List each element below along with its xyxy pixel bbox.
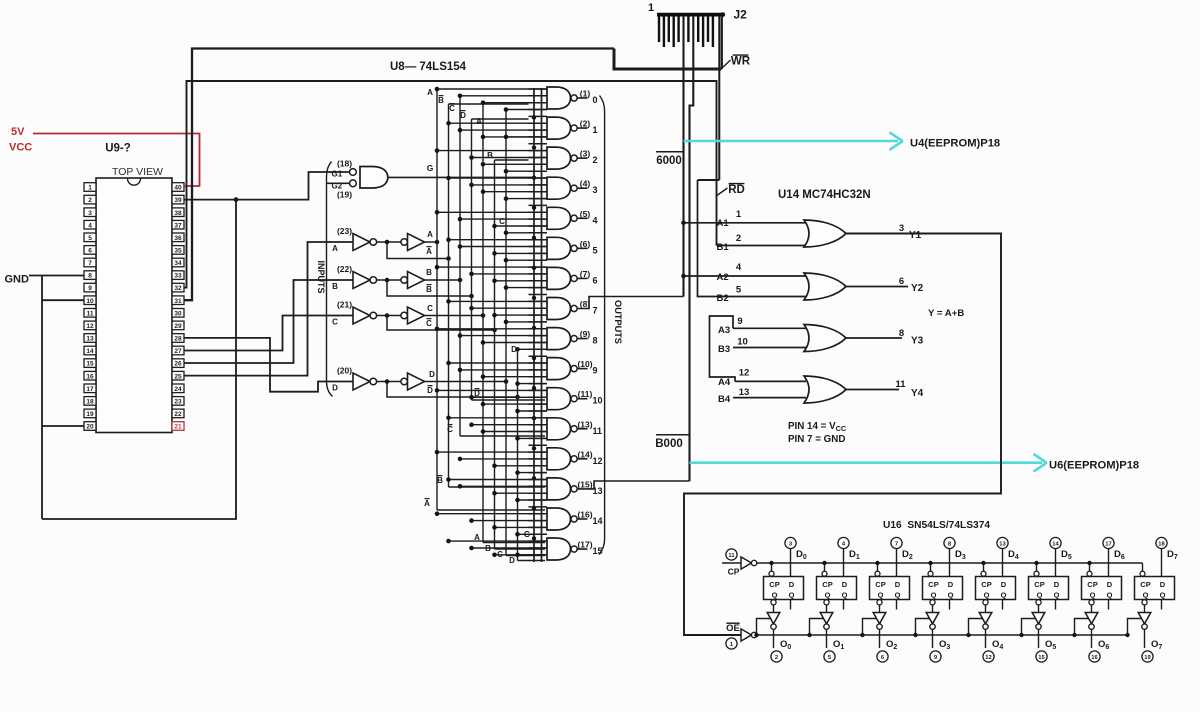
tri-state output buffer bit 1 [824,600,829,605]
svg-text:A3: A3 [718,325,730,336]
input D6 [1103,537,1114,548]
svg-text:8: 8 [88,273,92,280]
svg-text:B1: B1 [717,242,730,253]
label RD with overline [729,183,745,185]
U8 NAND gate output 5 pin (6) [449,239,548,241]
wire 5V VCC red to U9 pin 40 [33,134,200,187]
svg-text:D: D [509,556,515,565]
wire Y1 long loop to U16 OE [684,234,1001,636]
svg-text:3: 3 [593,185,598,195]
U9 pin 9 box [84,283,96,292]
svg-text:PIN 7 = GND: PIN 7 = GND [788,434,845,445]
svg-text:U4(EEPROM)P18: U4(EEPROM)P18 [910,138,1000,150]
tri-state output buffer bit 7 [1142,600,1147,605]
wire OE enable tap bit 1 [810,619,824,636]
svg-text:11: 11 [728,553,735,559]
wire G enable line to decoder strip [388,176,534,178]
U9 pin 10 box [84,296,96,305]
svg-text:(16): (16) [577,509,592,519]
or-gate U14-1 [804,220,846,247]
wire GND to U9 pin 20 [42,425,84,427]
svg-text:2: 2 [88,197,92,204]
U9 pin 18 box [84,397,96,406]
svg-text:8: 8 [593,336,598,346]
wire GND to U9 pin 8 [29,275,84,277]
svg-text:CP: CP [1140,580,1150,589]
svg-text:2: 2 [775,655,778,661]
svg-text:Y1: Y1 [909,230,922,241]
svg-text:2: 2 [736,233,741,244]
wire B true line [425,279,461,281]
wire G2 stub [327,182,350,184]
U9 pin 13 box [84,334,96,343]
U9 pin 38 box [172,208,184,217]
svg-text:U8— 74LS154: U8— 74LS154 [390,61,467,73]
svg-text:Y4: Y4 [911,388,924,399]
decoder bus line D x=471.5 [471,119,473,400]
decoder bus line A x=437.0 [436,89,438,510]
wire RD jog [698,179,720,181]
svg-text:A: A [427,88,433,97]
svg-text:33: 33 [174,273,182,280]
wire CP stub bit 1 [824,563,826,571]
U8 NAND gate output 2 pin (3) [437,150,547,152]
svg-text:CP: CP [728,567,740,577]
wire B4 input [733,397,806,399]
label WR with overline [733,54,749,56]
svg-text:(18): (18) [337,159,352,169]
bracket OUTPUTS [599,96,605,555]
U9 pin 29 box [172,321,184,330]
svg-text:11: 11 [895,379,906,390]
svg-text:VCC: VCC [9,142,32,154]
svg-text:A: A [426,247,432,256]
svg-text:CP: CP [928,580,938,589]
svg-text:16: 16 [86,373,94,380]
svg-text:4: 4 [736,262,742,273]
svg-text:Q: Q [789,591,795,600]
svg-text:10: 10 [737,337,748,348]
tri-state output buffer bit 6 [1089,600,1094,605]
svg-text:CP: CP [875,580,885,589]
flip-flop U16 bit 6 [1082,577,1122,600]
tri-state output buffer bit 5 [1036,600,1041,605]
svg-text:(7): (7) [580,269,591,279]
svg-text:Q: Q [931,591,937,600]
U8 NAND gate output 0 pin (1) [437,88,547,90]
wire D true line [425,381,507,383]
U9 pin 20 box [84,422,96,431]
leader line RD [717,188,728,196]
decoder bus line A x=483.0 [482,103,484,543]
svg-text:16: 16 [1091,655,1098,661]
svg-text:G: G [427,163,434,173]
svg-text:13: 13 [999,542,1006,548]
svg-text:9: 9 [88,285,92,292]
svg-text:OUTPUTS: OUTPUTS [613,300,623,344]
svg-text:15: 15 [1038,655,1045,661]
svg-text:A: A [332,244,338,253]
wire WR J2 pin stub [721,16,723,69]
svg-text:(10): (10) [577,359,592,369]
svg-text:Q: Q [895,591,901,600]
svg-text:(13): (13) [577,419,592,429]
svg-text:2: 2 [593,155,598,165]
svg-text:13: 13 [739,387,750,398]
U9 pin 33 box [172,271,184,280]
U9 pin 30 box [172,309,184,318]
U8 NAND gate output 6 pin (7) [437,266,547,268]
svg-text:A1: A1 [717,218,730,229]
svg-text:J2: J2 [734,8,748,22]
wire RD to B2 [698,180,807,297]
svg-text:3: 3 [899,223,904,234]
U9 pin 27 box [172,346,184,355]
cyan arrow to U6 EEPROM P18 [690,461,1043,464]
svg-text:Q: Q [772,591,778,600]
svg-text:4: 4 [593,215,598,225]
U8 NAND gate output 7 pin (8) [449,300,548,302]
tri-state output buffer bit 2 [877,600,882,605]
wire B000 net from J2 down [690,16,694,481]
wire Y3 output [846,337,902,339]
svg-text:3: 3 [88,210,92,217]
svg-text:19: 19 [1144,655,1151,661]
svg-text:C: C [449,104,455,113]
svg-text:CP: CP [769,580,779,589]
wire WR net: U9 pin 31 up and across top to J2 [184,49,614,301]
svg-text:(8): (8) [580,299,591,309]
svg-text:Y2: Y2 [911,283,924,294]
wire CP distribution line [757,562,1143,564]
flip-flop U16 bit 5 [1029,577,1069,600]
wire A4 input [735,380,806,382]
wire OE enable tap bit 2 [863,619,877,636]
svg-text:12: 12 [593,456,603,466]
svg-text:(5): (5) [580,209,591,219]
svg-text:A2: A2 [717,272,729,283]
svg-text:D: D [1054,580,1060,589]
input D4 [997,537,1008,548]
connector J2 pins [658,16,660,42]
svg-text:23: 23 [174,398,182,405]
svg-text:13: 13 [86,336,94,343]
svg-text:Q: Q [984,591,990,600]
svg-text:U16 SN54LS/74LS374: U16 SN54LS/74LS374 [883,520,990,531]
svg-text:28: 28 [174,336,182,343]
U9 pin 21 box [172,422,184,431]
wire A true line [425,241,438,243]
svg-text:(20): (20) [337,366,352,376]
svg-text:(19): (19) [337,190,352,200]
tri-state output buffer bit 0 [771,600,776,605]
svg-text:9: 9 [593,366,598,376]
svg-text:10: 10 [86,298,94,305]
U8 NAND gate output 12 pin (14) [437,451,547,453]
U9 pin 15 box [84,359,96,368]
junction GND / U9 pin 39 wire [234,197,239,202]
svg-text:C: C [499,217,505,226]
svg-text:8: 8 [899,328,904,339]
svg-text:D: D [842,580,848,589]
svg-text:B: B [426,268,432,277]
U9 pin 23 box [172,397,184,406]
U9 pin 8 box [84,271,96,280]
svg-text:CP: CP [822,580,832,589]
svg-text:5V: 5V [11,126,25,138]
svg-text:D: D [429,370,435,379]
svg-text:13: 13 [593,486,603,496]
wire A3 A4 tie bracket [710,316,736,381]
U8 NAND gate output 1 pin (2) [449,122,548,124]
svg-text:17: 17 [1105,542,1111,548]
U8 NAND gate output 10 pin (11) [437,389,547,391]
U9 pin 2 box [84,195,96,204]
svg-text:B: B [426,285,432,294]
input D1 [838,537,849,548]
U8 NAND gate output 15 pin (17) [449,540,548,542]
U8 NAND gate output 13 pin (15) [449,479,548,481]
svg-text:1: 1 [648,2,654,14]
svg-text:25: 25 [174,373,182,380]
wire OE enable tap bit 3 [916,619,930,636]
wire CP stub bit 0 [771,563,773,571]
svg-text:C: C [447,425,453,434]
wire U9 pin 28 to input D [184,338,353,392]
svg-text:1: 1 [736,209,742,220]
wire Y4 output [846,389,899,391]
svg-text:1: 1 [593,125,598,135]
wire OE enable tap bit 5 [1022,619,1036,636]
wire A3 input [733,327,806,329]
svg-text:CP: CP [1034,580,1044,589]
U9 pin 3 box [84,208,96,217]
wire CP stub bit 6 [1089,563,1091,571]
svg-text:A: A [427,230,433,239]
svg-text:Q: Q [1090,591,1096,600]
or-gate U14-3 [804,325,846,352]
or-gate U14-2 [804,273,846,300]
svg-text:D: D [789,580,795,589]
svg-text:G: G [524,530,530,539]
U9 pin 31 box [172,296,184,305]
svg-text:1: 1 [88,185,92,192]
wire GND vertical branch [41,276,43,520]
svg-text:C: C [426,319,432,328]
svg-text:19: 19 [86,411,94,418]
or-gate U14-4 [804,376,846,403]
wire OE distribution line [757,634,1129,636]
svg-text:RD: RD [728,184,745,196]
svg-text:B: B [487,151,493,160]
wire GND to U9 pin 10 [42,299,84,301]
U9 pin 14 box [84,346,96,355]
svg-text:6: 6 [899,276,904,287]
U9 pin 6 box [84,246,96,255]
flip-flop U16 bit 7 [1135,577,1175,600]
flip-flop U16 bit 4 [976,577,1016,600]
U9 pin 17 box [84,384,96,393]
wire GND bottom run to node under decoder [42,200,236,519]
flip-flop U16 bit 1 [817,577,857,600]
connector J2 header bar [657,13,725,17]
U8 NAND gate output 8 pin (9) [437,328,547,330]
wire OE enable tap bit 4 [969,619,983,636]
svg-text:12: 12 [86,323,94,330]
svg-text:5: 5 [593,245,598,255]
svg-text:D: D [460,111,466,120]
svg-text:31: 31 [174,298,182,305]
svg-text:Q: Q [842,591,848,600]
U9 pin 37 box [172,220,184,229]
svg-text:Q: Q [948,591,954,600]
svg-text:U6(EEPROM)P18: U6(EEPROM)P18 [1049,460,1139,472]
wire CP stub bit 3 [930,563,932,571]
wire U9 pin 25 to input A [184,242,353,376]
svg-text:CP: CP [1087,580,1097,589]
U9 pin 32 box [172,283,184,292]
buffer U16 CP input [726,549,737,560]
wire A2 input from 6000 net [684,275,807,277]
svg-text:B000: B000 [655,438,683,450]
svg-text:9: 9 [737,316,742,327]
svg-text:D: D [895,580,901,589]
junction J2 bar end [721,12,726,17]
wire RD J2 pin down [718,16,720,180]
wire OE enable tap bit 7 [1128,619,1142,636]
svg-text:(15): (15) [577,479,592,489]
U8 NAND gate output 4 pin (5) [437,211,547,213]
svg-text:Q: Q [1143,591,1149,600]
svg-text:34: 34 [174,260,182,267]
svg-text:Q: Q [825,591,831,600]
leader line WR [722,60,731,69]
decoder bus line C x=506.0 [505,110,507,556]
svg-text:35: 35 [174,248,182,255]
svg-text:GND: GND [5,274,30,286]
svg-text:TOP VIEW: TOP VIEW [112,166,163,178]
wire B-bar complement line [387,280,472,296]
wire D-bar complement line [387,382,518,398]
gate U8 enable NAND G1 G2 [350,169,357,176]
wire CP stub bit 5 [1036,563,1038,571]
svg-text:Q: Q [1037,591,1043,600]
tri-state output buffer bit 4 [983,600,988,605]
svg-text:6000: 6000 [656,155,682,167]
svg-text:Y3: Y3 [911,336,924,347]
wire CP stub bit 4 [983,563,985,571]
svg-text:B: B [437,476,443,485]
U9 pin 24 box [172,384,184,393]
svg-text:6: 6 [88,248,92,255]
svg-text:14: 14 [593,516,603,526]
svg-text:27: 27 [174,348,182,355]
junction 6000/A2 [681,274,686,279]
U9 pin 1 box [84,183,96,192]
U9 pin 5 box [84,233,96,242]
cyan arrow to U4 EEPROM P18 [684,140,899,143]
svg-text:32: 32 [174,285,182,292]
svg-text:D: D [1107,580,1113,589]
svg-text:U14 MC74HC32N: U14 MC74HC32N [778,189,871,201]
svg-text:(4): (4) [580,179,591,189]
U8 NAND gate output 11 pin (13) [449,417,548,419]
wire U9 pin 39 to G1 enable [184,172,349,200]
flip-flop U16 bit 2 [870,577,910,600]
svg-text:14: 14 [1052,542,1059,548]
wire U9 pin 26 to input B [184,280,353,363]
svg-text:(9): (9) [580,329,591,339]
junction 6000/A1 [681,221,686,226]
wire RD to B1 [717,245,807,247]
flip-flop U16 bit 0 [764,577,804,600]
U9 pin 19 box [84,409,96,418]
svg-text:(6): (6) [580,239,591,249]
svg-text:B: B [438,96,444,105]
input D5 [1050,537,1061,548]
tri-state output buffer bit 3 [930,600,935,605]
svg-text:Q: Q [878,591,884,600]
svg-text:36: 36 [174,235,182,242]
svg-text:38: 38 [174,210,182,217]
wire C true line [425,315,484,317]
svg-text:7: 7 [895,542,898,548]
U9 pin 40 box [172,183,184,192]
svg-text:C: C [427,304,433,313]
IC U9 DIP-40 package body (TOP VIEW) [96,178,172,433]
svg-text:(3): (3) [580,149,591,159]
U9 pin 4 box [84,220,96,229]
svg-text:10: 10 [593,396,603,406]
buffer U16 OE input [726,622,739,624]
svg-text:18: 18 [86,398,94,405]
svg-text:(17): (17) [577,540,592,550]
svg-text:(1): (1) [580,89,591,99]
svg-text:Q: Q [1001,591,1007,600]
svg-text:A: A [424,499,430,508]
svg-text:C: C [332,318,338,327]
svg-text:39: 39 [174,197,182,204]
U9 pin 7 box [84,258,96,267]
svg-text:B4: B4 [718,394,731,405]
wire U9 pin 27 to input C [184,316,353,351]
svg-text:A4: A4 [718,377,731,388]
decoder bus line B x=494.5 [494,160,496,549]
svg-text:12: 12 [985,655,991,661]
wire A-bar complement line [387,242,449,259]
svg-text:37: 37 [174,222,182,229]
U9 pin 11 box [84,309,96,318]
svg-text:Y = A+B: Y = A+B [928,308,964,319]
wire 6000 net vertical from J2 [682,16,684,297]
svg-text:D: D [427,386,433,395]
wire C-bar complement line [387,316,495,331]
svg-text:(11): (11) [578,389,593,399]
svg-text:B: B [332,282,338,291]
svg-text:Q: Q [1107,591,1113,600]
svg-text:WR: WR [731,56,751,68]
svg-text:26: 26 [174,361,182,368]
U9 pin 26 box [172,359,184,368]
net label 6000 tick [656,151,684,153]
svg-text:(14): (14) [577,449,592,459]
U9 pin 39 box [172,195,184,204]
decoder bus line D x=517.5 [517,349,519,560]
wire OE enable tap bit 6 [1075,619,1089,636]
svg-text:B3: B3 [718,344,730,355]
U9 index notch [128,179,141,186]
svg-text:U9-?: U9-? [105,143,131,155]
